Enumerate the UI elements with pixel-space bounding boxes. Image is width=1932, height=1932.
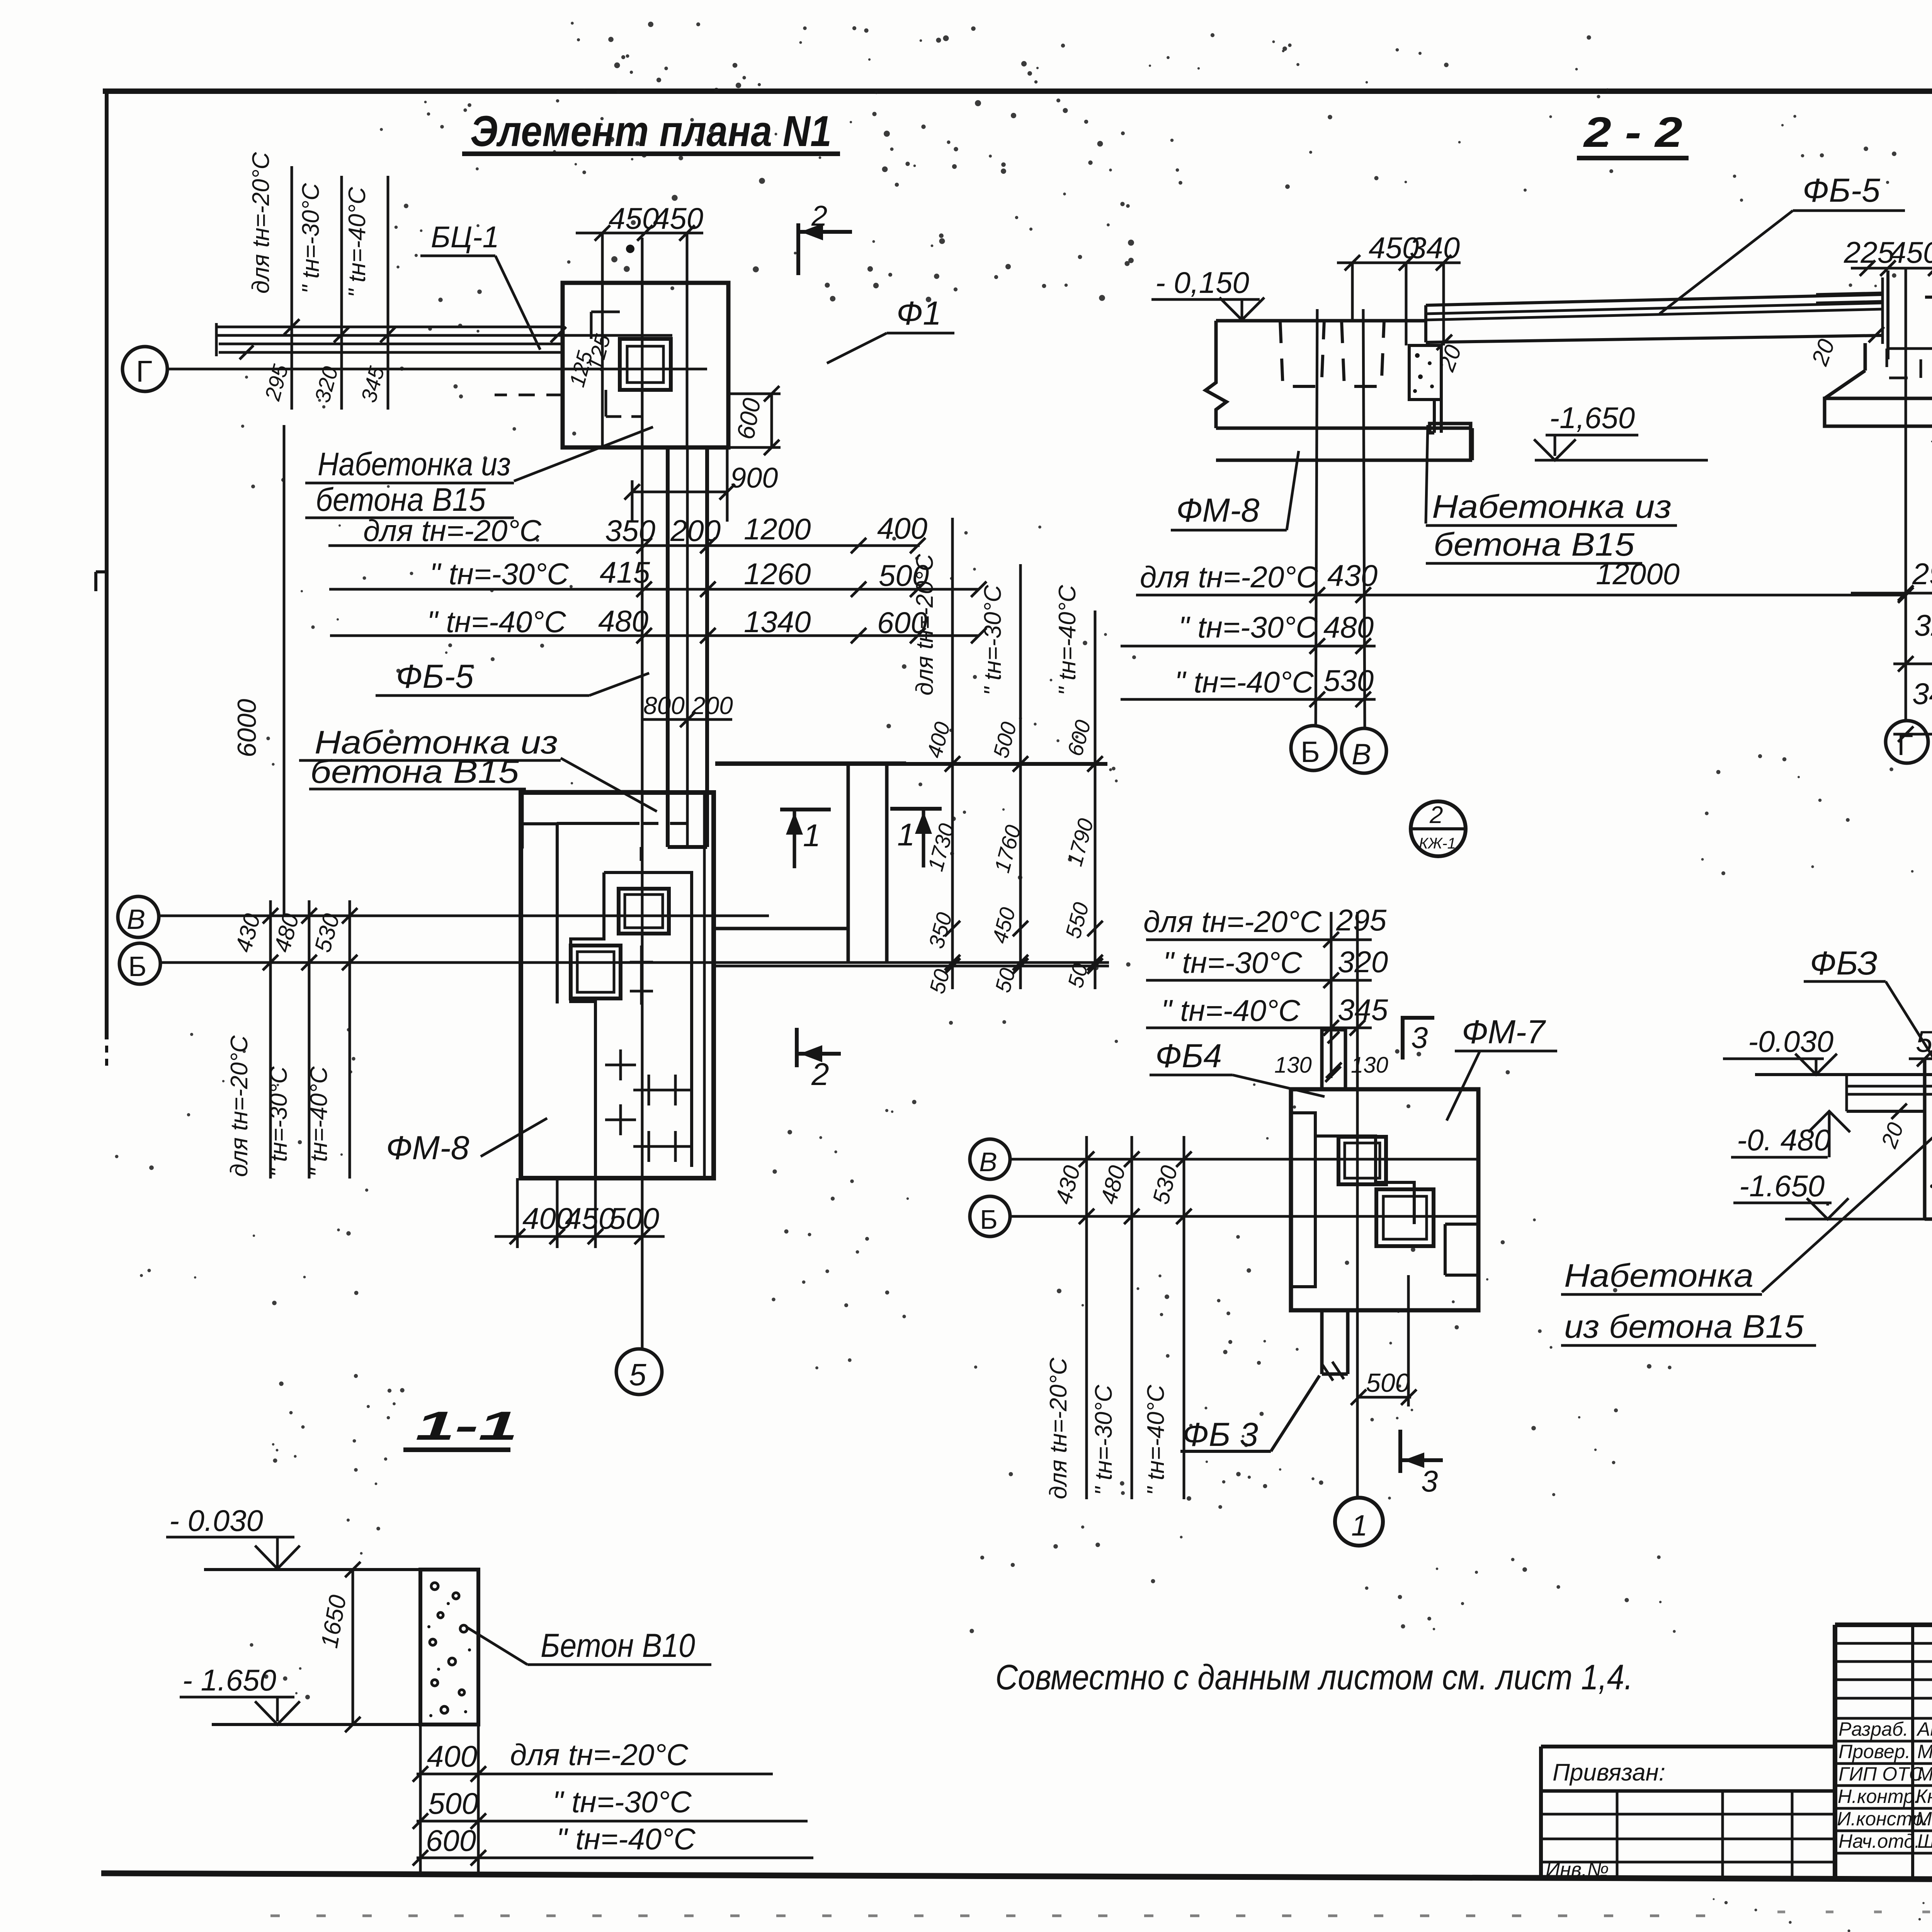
wall with concrete (420, 1570, 478, 1725)
svg-text:450: 450 (1889, 235, 1932, 269)
name rows (1835, 1740, 1932, 1743)
svg-text:12000: 12000 (1596, 557, 1680, 591)
Привязан box (1541, 1745, 1835, 1748)
svg-text:500: 500 (1366, 1368, 1410, 1398)
svg-text:Машков: Машков (1917, 1763, 1932, 1785)
svg-text:ФБ-5: ФБ-5 (396, 658, 474, 695)
svg-text:3: 3 (1421, 1464, 1438, 1498)
svg-text:2: 2 (1429, 802, 1443, 828)
svg-text:" tн=-30°C: " tн=-30°C (1163, 946, 1302, 980)
axis circle Г (122, 347, 167, 391)
svg-text:В: В (127, 904, 145, 935)
dim rows x3 (363, 511, 929, 639)
КЖ-1 ref circle (1411, 801, 1466, 856)
short dim verticals 430/480/530 (1085, 1136, 1088, 1499)
svg-text:Элемент плана N1: Элемент плана N1 (470, 107, 832, 155)
top slot ФБ4 (1320, 1028, 1324, 1089)
svg-text:450: 450 (609, 201, 659, 235)
svg-text:480: 480 (1095, 1163, 1131, 1207)
axis verticals + circles (1316, 309, 1317, 726)
svg-text:130: 130 (1274, 1053, 1312, 1078)
svg-text:для tн=-20°C: для tн=-20°C (510, 1738, 689, 1772)
Ф1 square (563, 283, 728, 447)
svg-text:" tн=-30°C: " tн=-30°C (265, 1066, 292, 1177)
svg-text:Набетонка из: Набетонка из (318, 446, 511, 482)
svg-text:3: 3 (1411, 1020, 1428, 1054)
DETAIL FM7 (970, 903, 1557, 1546)
left signature sub-table verticals (1911, 1625, 1914, 1878)
svg-text:600: 600 (1063, 718, 1095, 759)
section mark 2 (bottom) (795, 1028, 799, 1067)
svg-text:Магомейсо: Магомейсо (1916, 1808, 1932, 1830)
svg-text:ФМ-7: ФМ-7 (1462, 1014, 1546, 1051)
900 dim (632, 491, 727, 493)
svg-text:- 1.650: - 1.650 (182, 1663, 276, 1697)
svg-text:Апенка: Апенка (1916, 1718, 1932, 1740)
svg-text:800: 800 (643, 692, 685, 719)
svg-text:1260: 1260 (744, 557, 811, 591)
svg-text:1340: 1340 (744, 605, 811, 639)
svg-text:Привязан:: Привязан: (1553, 1759, 1665, 1786)
floor right of column (1925, 296, 1932, 299)
набетонка hatched column (1409, 345, 1441, 400)
floor slabs (1755, 1073, 1932, 1076)
svg-text:Разраб.: Разраб. (1838, 1718, 1908, 1740)
svg-text:450: 450 (653, 201, 703, 235)
NOTE TEXT (995, 1658, 1633, 1697)
svg-text:- 0,150: - 0,150 (1155, 265, 1249, 299)
rails entering from left (1816, 293, 1883, 294)
svg-text:" tн=-30°C: " tн=-30°C (553, 1785, 692, 1819)
svg-text:для tн=-20°C: для tн=-20°C (226, 1035, 253, 1177)
svg-text:-0. 480: -0. 480 (1737, 1123, 1831, 1157)
svg-text:" tн=-30°C: " tн=-30°C (430, 557, 569, 591)
main rect (1291, 1089, 1478, 1310)
svg-text:Совместно с данным листом см.: Совместно с данным листом см. лист 1,4. (995, 1658, 1633, 1697)
svg-text:" tн=-40°C: " tн=-40°C (556, 1822, 696, 1856)
svg-text:500: 500 (428, 1786, 478, 1820)
svg-text:480: 480 (598, 604, 648, 638)
svg-text:ФБ 3: ФБ 3 (1182, 1416, 1258, 1453)
section mark 3 bottom (1398, 1430, 1402, 1473)
svg-text:ФМ-8: ФМ-8 (386, 1129, 469, 1167)
Ф1 pedestal (1864, 343, 1867, 371)
axis circle Б (119, 943, 160, 984)
svg-text:из бетона В15: из бетона В15 (1564, 1308, 1804, 1345)
axis circle В (118, 896, 159, 937)
svg-text:50: 50 (925, 967, 954, 996)
svg-text:ФМ-8: ФМ-8 (1176, 492, 1260, 529)
svg-text:ГИП ОТС: ГИП ОТС (1838, 1763, 1923, 1785)
svg-text:480: 480 (269, 911, 304, 955)
column БЦ-1 (1886, 270, 1889, 359)
svg-text:-1,650: -1,650 (1549, 401, 1635, 435)
svg-text:ФБЗ: ФБЗ (1810, 945, 1878, 982)
svg-text:Б: Б (128, 951, 146, 982)
column squares in ФМ-8 (619, 889, 669, 934)
svg-text:Н.контр.: Н.контр. (1838, 1786, 1920, 1807)
axis circles В Б (970, 1139, 1010, 1179)
svg-text:ФБ4: ФБ4 (1155, 1037, 1222, 1075)
rails БЦ-1 from left (216, 326, 563, 328)
crosses (605, 1049, 691, 1162)
svg-text:" tн=-40°C: " tн=-40°C (1161, 993, 1300, 1027)
svg-text:И.констр.: И.констр. (1837, 1808, 1928, 1830)
left rotated t-labels columns (248, 151, 371, 298)
foundation columns (1923, 1059, 1927, 1219)
svg-text:для tн=-20°C: для tн=-20°C (248, 151, 274, 294)
svg-text:400: 400 (877, 511, 927, 545)
svg-text:340: 340 (1410, 231, 1460, 265)
svg-text:400: 400 (922, 719, 955, 761)
section mark 3 top (1401, 1016, 1405, 1060)
svg-text:Манзюк: Манзюк (1917, 1741, 1932, 1762)
PLAN (118, 107, 1109, 1395)
svg-text:125: 125 (582, 332, 615, 373)
svg-text:Г: Г (1897, 729, 1913, 762)
svg-text:530: 530 (1323, 663, 1374, 697)
svg-text:2 - 2: 2 - 2 (1583, 109, 1682, 156)
svg-text:Провер.: Провер. (1838, 1741, 1910, 1762)
svg-text:Б: Б (1301, 736, 1320, 769)
svg-text:295 для tн=-20°C: 295 для tн=-20°C (1912, 557, 1932, 591)
SECTION 3-3 (1561, 820, 1932, 1447)
svg-text:500: 500 (609, 1201, 659, 1235)
svg-text:430: 430 (230, 911, 265, 955)
svg-text:Г: Г (136, 354, 152, 388)
svg-text:450: 450 (565, 1201, 615, 1235)
svg-text:1: 1 (1351, 1509, 1367, 1542)
narrow top rows (1835, 1642, 1932, 1645)
svg-text:20: 20 (1876, 1119, 1908, 1152)
svg-text:430: 430 (1050, 1163, 1085, 1207)
svg-text:ФБ-5: ФБ-5 (1803, 172, 1881, 209)
outer (1835, 1622, 1932, 1627)
section mark 2 (top) (796, 223, 800, 275)
ФМ-8 slab outline (1216, 319, 1426, 323)
svg-text:БЦ-1: БЦ-1 (431, 220, 499, 254)
axis 5 vertical + circle (641, 238, 644, 1349)
6000 dim line (283, 425, 286, 916)
SECTION 1-1 (166, 1403, 813, 1876)
svg-text:20: 20 (1806, 336, 1840, 369)
svg-text:600: 600 (731, 396, 766, 441)
SECTION 2-2 (1121, 109, 1932, 856)
svg-text:" tн=-40°C: " tн=-40°C (344, 187, 371, 298)
svg-text:для tн=-20°C: для tн=-20°C (1143, 905, 1322, 939)
svg-text:600: 600 (426, 1823, 476, 1857)
svg-text:500: 500 (988, 719, 1021, 761)
svg-text:2: 2 (811, 1057, 829, 1092)
svg-text:- 0.030: - 0.030 (169, 1503, 263, 1537)
beam band ФБ-5 (1426, 294, 1883, 305)
svg-text:" tн=-30°C: " tн=-30°C (298, 183, 324, 294)
svg-text:295: 295 (1336, 903, 1387, 937)
400 450 500 bottom dim (516, 1178, 519, 1248)
ФМ-8 block (521, 793, 714, 1178)
svg-text:-0.030: -0.030 (1748, 1024, 1833, 1058)
svg-text:" tн=-40°C: " tн=-40°C (1143, 1384, 1169, 1495)
svg-text:1-1: 1-1 (415, 1403, 518, 1449)
dashed stakany (1280, 321, 1324, 386)
svg-text:1: 1 (803, 818, 821, 853)
svg-text:1: 1 (897, 817, 915, 852)
svg-text:для tн=-20°C: для tн=-20°C (912, 553, 938, 696)
svg-text:КЖ-1: КЖ-1 (1419, 835, 1456, 852)
long vert dim lines w rotated labels (951, 518, 954, 989)
section marks 1 (780, 808, 831, 811)
svg-text:" tн=-40°C: " tн=-40°C (427, 605, 566, 639)
axis circle 1 (1335, 1498, 1383, 1546)
squares (1338, 1137, 1386, 1184)
svg-text:345 " tн=-40°C: 345 " tн=-40°C (1912, 677, 1932, 711)
svg-text:В: В (979, 1147, 997, 1177)
wall below + dim rows (419, 1725, 422, 1876)
svg-text:415: 415 (600, 555, 650, 589)
svg-text:320 " tн=-30°C: 320 " tн=-30°C (1914, 608, 1932, 642)
svg-text:для tн=-20°C: для tн=-20°C (1140, 560, 1318, 594)
svg-text:" tн=-30°C: " tн=-30°C (980, 585, 1006, 696)
svg-text:Б: Б (980, 1204, 998, 1235)
svg-text:400: 400 (427, 1739, 477, 1773)
svg-text:" tн=-40°C: " tн=-40°C (306, 1066, 332, 1177)
svg-text:530: 530 (310, 911, 345, 955)
svg-text:200: 200 (691, 692, 733, 719)
foundation step bottom center (1430, 423, 1471, 460)
svg-text:Княжицкий: Княжицкий (1916, 1786, 1932, 1807)
svg-text:900: 900 (730, 462, 778, 494)
small ticks right of lower square (640, 946, 643, 1005)
ground bottom (212, 1723, 478, 1726)
svg-text:130: 130 (1351, 1053, 1388, 1078)
svg-text:для tн=-20°C: для tн=-20°C (1045, 1357, 1072, 1499)
bottom slot ФБ3 (1320, 1310, 1324, 1374)
svg-text:В: В (1352, 738, 1371, 771)
svg-text:1790: 1790 (1062, 816, 1098, 869)
svg-text:1650: 1650 (316, 1593, 352, 1650)
TITLE BLOCK (1541, 1625, 1932, 1910)
svg-text:Штука: Штука (1917, 1830, 1932, 1852)
right foundation part (top lines) (715, 762, 1107, 766)
svg-text:320: 320 (1338, 945, 1388, 979)
600 dim right of square (728, 393, 781, 395)
svg-text:" tн=-40°C: " tн=-40°C (1175, 665, 1314, 699)
svg-text:Набетонка: Набетонка (1564, 1257, 1753, 1294)
svg-text:5: 5 (629, 1357, 646, 1392)
ФБ-5 strip below square (666, 447, 670, 847)
ground top (204, 1568, 422, 1571)
svg-text:бетона В15: бетона В15 (310, 753, 519, 790)
svg-text:Инв.№: Инв.№ (1546, 1859, 1609, 1881)
430/480/530 short dim lines left (269, 900, 272, 1179)
svg-text:6000: 6000 (232, 699, 262, 757)
svg-text:450: 450 (987, 905, 1020, 946)
svg-text:Бетон В10: Бетон В10 (541, 1627, 695, 1664)
svg-text:-1.650: -1.650 (1739, 1169, 1825, 1203)
svg-text:480: 480 (1323, 610, 1374, 644)
svg-text:" tн=-40°C: " tн=-40°C (1054, 585, 1081, 696)
svg-text:200: 200 (670, 514, 721, 548)
svg-text:" tн=-30°C: " tн=-30°C (1090, 1384, 1117, 1495)
svg-text:бетона В15: бетона В15 (316, 481, 486, 518)
svg-text:1200: 1200 (744, 512, 811, 546)
svg-text:530: 530 (1148, 1163, 1183, 1207)
svg-text:" tн=-30°C: " tн=-30°C (1179, 610, 1318, 644)
svg-text:225: 225 (1844, 235, 1895, 269)
svg-text:Нач.отд.: Нач.отд. (1838, 1830, 1920, 1852)
svg-text:2: 2 (811, 200, 827, 232)
svg-text:Ф1: Ф1 (896, 295, 941, 332)
1650 dim (352, 1570, 354, 1725)
svg-text:Набетонка из: Набетонка из (1432, 488, 1672, 525)
